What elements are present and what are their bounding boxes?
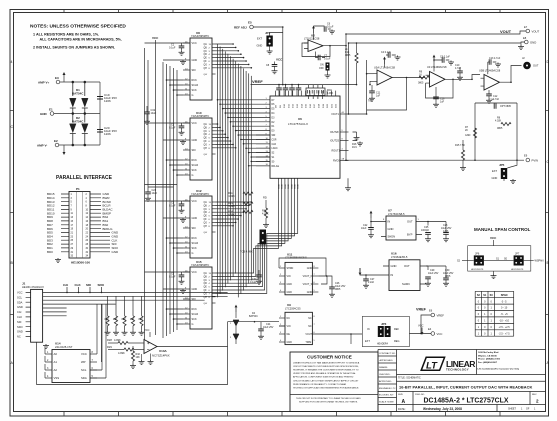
DAC pin ROUT1 xyxy=(340,150,349,152)
svg-text:A1: A1 xyxy=(54,360,58,364)
wires DAC left control xyxy=(256,135,270,166)
svg-text:CAI: CAI xyxy=(63,283,68,287)
wire +in U5A xyxy=(370,81,374,84)
svg-text:Fax: (408)434-0507: Fax: (408)434-0507 xyxy=(478,361,498,364)
svg-text:RCK: RCK xyxy=(192,79,198,82)
svg-text:R28: R28 xyxy=(107,338,112,342)
svg-text:MANUAL SPAN CONTROL: MANUAL SPAN CONTROL xyxy=(474,227,531,232)
svg-text:4.99K: 4.99K xyxy=(118,351,125,355)
svg-text:GND: GND xyxy=(112,250,120,254)
svg-text:QH: QH xyxy=(204,148,208,150)
capacitor C3 0.1uF xyxy=(169,201,190,223)
svg-text:GND: GND xyxy=(257,44,263,48)
svg-text:APPLICATION. COMPONENT SUBSTIT: APPLICATION. COMPONENT SUBSTITUTION AND … xyxy=(293,376,354,379)
svg-text:E2: E2 xyxy=(54,139,58,143)
svg-text:QA: QA xyxy=(204,272,208,275)
wire rail2 xyxy=(349,42,525,43)
svg-text:VSS: VSS xyxy=(54,376,60,380)
svg-text:10K: 10K xyxy=(104,317,109,321)
V- arrow xyxy=(63,145,65,152)
svg-text:CHECKED:: CHECKED: xyxy=(379,374,391,376)
svg-text:QE: QE xyxy=(204,138,208,140)
SHIFTREG xyxy=(144,31,298,340)
svg-text:QB: QB xyxy=(204,47,208,49)
svg-text:VIN: VIN xyxy=(287,325,291,328)
svg-text:SDI: SDI xyxy=(86,283,91,287)
svg-text:74VHC595MTC: 74VHC595MTC xyxy=(191,192,209,196)
svg-text:R29: R29 xyxy=(107,345,112,349)
svg-text:SCK: SCK xyxy=(192,247,197,250)
svg-text:1000pF: 1000pF xyxy=(421,229,430,232)
svg-text:QC: QC xyxy=(204,51,208,53)
svg-text:DC1485A-2 * LTC2757CLX: DC1485A-2 * LTC2757CLX xyxy=(424,397,509,404)
svg-text:E3: E3 xyxy=(55,76,59,80)
svg-text:G: G xyxy=(192,94,194,97)
svg-text:0 - 5: 0 - 5 xyxy=(502,300,507,303)
svg-text:IN: IN xyxy=(367,328,370,331)
svg-text:LTC2757ACLX: LTC2757ACLX xyxy=(288,122,308,126)
svg-text:4.02K: 4.02K xyxy=(495,120,502,123)
svg-text:RVOS: RVOS xyxy=(333,160,340,163)
pin 1 xyxy=(45,353,52,355)
IC U10 74VHC595MTC xyxy=(183,111,216,180)
svg-text:QH': QH' xyxy=(204,154,208,156)
svg-text:GND: GND xyxy=(530,41,536,45)
svg-text:10uF: 10uF xyxy=(361,227,367,230)
DAC pin RVOS xyxy=(340,160,349,162)
PARALLEL_IF xyxy=(47,175,119,265)
svg-text:GND: GND xyxy=(17,330,23,334)
wires bus to DAC left pins xyxy=(218,100,271,166)
svg-text:WSPAN: WSPAN xyxy=(535,260,544,263)
svg-text:A2: A2 xyxy=(54,368,58,372)
svg-text:QA: QA xyxy=(204,201,208,204)
svg-text:GND: GND xyxy=(295,184,297,189)
svg-text:DATE:: DATE: xyxy=(398,407,406,411)
wire control bus horizontals xyxy=(145,43,184,324)
svg-text:GND: GND xyxy=(287,283,293,286)
svg-text:GND: GND xyxy=(287,341,293,344)
svg-text:GND: GND xyxy=(192,59,198,62)
svg-text:E7: E7 xyxy=(524,25,528,29)
svg-text:VREF: VREF xyxy=(416,307,427,311)
svg-text:SCLR: SCLR xyxy=(192,164,199,167)
svg-text:IOUT2S: IOUT2S xyxy=(330,140,339,143)
svg-text:CLK: CLK xyxy=(75,283,82,287)
svg-text:VREF: VREF xyxy=(252,79,263,84)
svg-text:VCC: VCC xyxy=(192,200,197,203)
svg-text:HEADER4: HEADER4 xyxy=(377,343,389,346)
testpoint E2 AMP V- xyxy=(55,143,59,147)
wire U3 output/feedback xyxy=(426,75,481,99)
svg-text:SIZE: SIZE xyxy=(398,394,403,396)
svg-text:SCK: SCK xyxy=(192,89,197,92)
svg-text:1uF: 1uF xyxy=(376,95,381,98)
svg-text:GND: GND xyxy=(17,305,23,309)
svg-text:DRAWN:: DRAWN: xyxy=(379,366,388,369)
svg-text:74VHC595MTC: 74VHC595MTC xyxy=(191,114,209,118)
svg-text:A: A xyxy=(402,399,406,405)
svg-text:VCC: VCC xyxy=(276,58,283,62)
svg-text:QD: QD xyxy=(204,283,208,285)
wire VOUT rail xyxy=(346,31,526,34)
svg-text:SDI: SDI xyxy=(17,320,22,324)
svg-text:QH: QH xyxy=(204,297,208,299)
ground IOUT2S xyxy=(356,139,358,141)
DAC pin IOUT2F xyxy=(340,131,349,133)
capacitor C2 0.1uF xyxy=(169,123,190,145)
pin 4 xyxy=(45,377,52,379)
wire AMP V+ rail xyxy=(60,81,100,83)
resistor R28 4.99K xyxy=(108,342,118,344)
svg-text:RFLAG: RFLAG xyxy=(272,165,280,168)
svg-text:SHDN: SHDN xyxy=(388,235,396,239)
svg-text:10K: 10K xyxy=(113,317,118,321)
wire PVIN rail xyxy=(346,159,524,161)
ground J1 xyxy=(43,344,49,349)
svg-text:QD: QD xyxy=(204,134,208,136)
svg-text:SDO: SDO xyxy=(17,325,23,329)
svg-text:VCC: VCC xyxy=(81,352,87,356)
svg-text:GND: GND xyxy=(298,184,300,189)
svg-text:VREF: VREF xyxy=(437,314,445,318)
svg-text:C14: C14 xyxy=(489,98,494,101)
svg-text:CAI: CAI xyxy=(17,310,22,314)
wires data bus verticals xyxy=(218,44,252,297)
span jumper box xyxy=(468,246,531,271)
capacitor C32 10uF xyxy=(144,106,157,124)
svg-text:4.99K: 4.99K xyxy=(228,195,235,198)
svg-text:0.1uF: 0.1uF xyxy=(324,58,331,61)
svg-text:4.99K: 4.99K xyxy=(327,92,334,95)
wire control bus verticals xyxy=(163,62,177,338)
svg-text:VERIFY PROPER AND RELIABLE OPE: VERIFY PROPER AND RELIABLE OPERATION IN … xyxy=(293,372,356,375)
svg-text:ENGINEER: LTC: ENGINEER: LTC xyxy=(379,388,396,390)
DAC top pin labels xyxy=(276,103,338,108)
svg-text:Wednesday, July 23, 2008: Wednesday, July 23, 2008 xyxy=(423,407,462,411)
svg-text:4.99K: 4.99K xyxy=(228,214,235,217)
svg-text:VIN: VIN xyxy=(287,275,291,278)
svg-text:HE10D-47H40LCX: HE10D-47H40LCX xyxy=(22,285,44,289)
V- arrow xyxy=(359,268,362,275)
svg-text:4.7uF: 4.7uF xyxy=(455,67,462,70)
svg-text:0.1uF: 0.1uF xyxy=(250,281,257,284)
svg-text:VCC: VCC xyxy=(17,291,23,295)
svg-text:A0: A0 xyxy=(54,352,58,356)
svg-text:16-BIT PARALLEL, INPUT, CURREN: 16-BIT PARALLEL, INPUT, CURRENT OUTPUT D… xyxy=(399,385,533,390)
svg-text:QB: QB xyxy=(204,205,208,207)
svg-text:QH': QH' xyxy=(204,303,208,305)
svg-text:G: G xyxy=(192,174,194,177)
svg-text:TECHNOLOGY: TECHNOLOGY xyxy=(446,367,469,371)
svg-text:VOUT: VOUT xyxy=(532,30,540,34)
title block frame xyxy=(378,350,546,412)
svg-text:TITLE: SCHEMATIC: TITLE: SCHEMATIC xyxy=(398,377,421,380)
SPANCTL xyxy=(457,227,544,336)
svg-text:SPAN: SPAN xyxy=(501,294,508,297)
svg-text:-5 - +5: -5 - +5 xyxy=(501,313,509,316)
P1 pin numbers xyxy=(71,194,89,258)
wire AMP V- rail xyxy=(59,144,100,146)
svg-text:0.1uF: 0.1uF xyxy=(327,26,334,29)
svg-text:VCC: VCC xyxy=(490,236,497,240)
svg-text:GND: GND xyxy=(285,184,287,189)
capacitor C19 xyxy=(97,97,103,100)
resistor R30 10K xyxy=(107,296,109,316)
right zone ticks xyxy=(546,111,549,315)
svg-text:CUSTOMER NOTICE: CUSTOMER NOTICE xyxy=(307,354,352,359)
svg-text:IN: IN xyxy=(391,273,394,277)
svg-text:E9: E9 xyxy=(524,154,528,158)
svg-text:QH: QH xyxy=(204,226,208,228)
wires box rows to bus xyxy=(216,44,252,226)
svg-text:REF: REF xyxy=(394,328,399,331)
svg-text:BD0: BD0 xyxy=(47,250,53,254)
svg-text:VCC: VCC xyxy=(192,42,197,45)
wires U11 out xyxy=(318,276,332,287)
svg-text:GND: GND xyxy=(307,291,313,294)
svg-text:JP5: JP5 xyxy=(499,163,505,167)
turret OUT xyxy=(523,62,531,70)
ground xyxy=(55,258,61,263)
svg-text:NE: NE xyxy=(287,333,291,336)
wire VREF rail xyxy=(251,84,357,86)
svg-text:WR: WR xyxy=(272,135,276,137)
svg-text:QA: QA xyxy=(204,123,208,126)
VREFSEC xyxy=(234,21,357,100)
svg-text:VOUT: VOUT xyxy=(305,333,312,336)
DAC pin IOUT2S xyxy=(340,140,349,142)
top zone ticks xyxy=(64,10,500,13)
svg-text:-10 - +10: -10 - +10 xyxy=(499,320,509,323)
svg-text:CONTRACT NO.: CONTRACT NO. xyxy=(379,352,396,355)
customer notice box xyxy=(290,352,378,412)
svg-text:4.7uF: 4.7uF xyxy=(493,98,500,101)
svg-text:GND: GND xyxy=(192,217,198,220)
svg-text:QH: QH xyxy=(204,68,208,70)
IC U8 74VHC595MTC xyxy=(183,31,216,100)
svg-text:AMP V+: AMP V+ xyxy=(38,81,49,85)
capacitor C5 0.1uF xyxy=(169,272,190,294)
svg-text:1uF: 1uF xyxy=(440,101,445,104)
svg-text:AMP V-: AMP V- xyxy=(37,144,47,148)
grounds under U13A xyxy=(139,360,145,365)
wires P1 right fan xyxy=(90,194,110,252)
svg-text:SDA: SDA xyxy=(81,376,87,380)
pin 6 xyxy=(90,369,97,371)
svg-text:CLK: CLK xyxy=(17,315,22,319)
svg-text:QB: QB xyxy=(204,276,208,278)
svg-text:1 ALL RESISTORS ARE IN OHMS,: 1 ALL RESISTORS ARE IN OHMS, 1%. xyxy=(33,33,99,37)
svg-text:2: 2 xyxy=(536,398,539,403)
diode D2 BAT54C xyxy=(70,113,88,146)
PROTECTION xyxy=(37,72,117,155)
svg-text:SUPPLIED FOR USE WITH LINEAR T: SUPPLIED FOR USE WITH LINEAR TECHNOLOGY … xyxy=(299,401,358,404)
svg-text:CLR: CLR xyxy=(272,144,277,146)
svg-text:QE: QE xyxy=(204,58,208,60)
svg-text:DWG NO.: DWG NO. xyxy=(415,394,425,396)
LT logo xyxy=(421,357,444,371)
DAC top pin stubs xyxy=(276,91,336,96)
svg-text:QD: QD xyxy=(204,54,208,56)
svg-text:10uF: 10uF xyxy=(152,192,158,195)
svg-text:VCC: VCC xyxy=(192,122,197,125)
svg-text:G: G xyxy=(192,252,194,255)
svg-text:GND: GND xyxy=(388,227,394,231)
svg-text:OFF: OFF xyxy=(319,67,324,70)
svg-text:U5B LT1469ACS8: U5B LT1469ACS8 xyxy=(479,69,501,73)
svg-text:GND: GND xyxy=(291,184,293,189)
svg-text:10K: 10K xyxy=(136,356,141,359)
svg-text:VOUT_S: VOUT_S xyxy=(303,283,313,286)
svg-text:-2.5 - +2.5: -2.5 - +2.5 xyxy=(499,326,511,329)
testpoint E1 GND xyxy=(50,112,54,116)
svg-text:4.99K: 4.99K xyxy=(114,338,121,342)
svg-text:THIS CIRCUIT IS PROPRIETARY TO: THIS CIRCUIT IS PROPRIETARY TO LINEAR TE… xyxy=(296,397,361,400)
svg-text:TECHNOLOGY APPLICATIONS ENGINE: TECHNOLOGY APPLICATIONS ENGINEERING FOR … xyxy=(293,386,359,389)
jumper JP3 xyxy=(362,316,409,346)
svg-text:HE10D50-100: HE10D50-100 xyxy=(71,261,90,265)
REGS xyxy=(228,209,454,347)
svg-text:-2.5 - +7.5: -2.5 - +7.5 xyxy=(499,332,511,335)
svg-text:C9 0.1uF: C9 0.1uF xyxy=(440,56,450,59)
DAC xyxy=(228,91,351,228)
wire right vertical xyxy=(99,82,101,145)
svg-text:E6: E6 xyxy=(429,309,433,313)
svg-text:Milpitas, CA 95035: Milpitas, CA 95035 xyxy=(478,354,498,357)
span table xyxy=(475,291,514,336)
svg-text:APPROVED:: APPROVED: xyxy=(379,380,392,383)
svg-text:QG: QG xyxy=(204,293,208,295)
svg-text:HD2X2X079: HD2X2X079 xyxy=(471,269,484,271)
svg-text:LTC2054CS5: LTC2054CS5 xyxy=(285,306,301,310)
svg-text:QD: QD xyxy=(204,212,208,214)
svg-text:NC7SZ14P6X: NC7SZ14P6X xyxy=(152,354,170,358)
wire bottom return xyxy=(37,342,228,384)
svg-text:G: G xyxy=(192,323,194,326)
V+ arrow xyxy=(370,211,373,218)
svg-text:J1: J1 xyxy=(22,282,26,286)
svg-text:2 INSTALL SHUNTS ON JUMPERS: 2 INSTALL SHUNTS ON JUMPERS AS SHOWN. xyxy=(33,46,115,50)
svg-text:LTC Confidential-For Customer: LTC Confidential-For Customer Use Only xyxy=(478,368,520,371)
svg-text:LTC6655BHMS8-5: LTC6655BHMS8-5 xyxy=(285,256,307,260)
svg-text:REF ADJ: REF ADJ xyxy=(234,26,247,30)
svg-text:NC: NC xyxy=(308,325,312,328)
resistor R33 10K xyxy=(132,296,134,316)
svg-text:EXT: EXT xyxy=(365,340,370,343)
svg-text:NOTES: UNLESS OTHERWISE SPECI: NOTES: UNLESS OTHERWISE SPECIFIED xyxy=(30,24,126,30)
svg-text:GND: GND xyxy=(192,288,198,291)
svg-text:TBB: TBB xyxy=(368,100,373,103)
svg-text:TRIM: TRIM xyxy=(305,341,311,344)
svg-text:SDA: SDA xyxy=(17,300,23,304)
svg-text:GND: GND xyxy=(307,267,313,270)
svg-text:VOUT: VOUT xyxy=(500,29,512,34)
svg-text:0805: 0805 xyxy=(345,54,351,57)
svg-text:EXT: EXT xyxy=(492,169,497,173)
IC U12 74VHC595MTC xyxy=(183,189,216,258)
DAC pin IOUT1 xyxy=(340,113,349,115)
wire GND rail xyxy=(54,113,100,115)
svg-text:GND: GND xyxy=(288,184,290,189)
wire U5B output xyxy=(500,66,522,83)
svg-text:OPT 0805: OPT 0805 xyxy=(500,105,512,108)
svg-text:IOUT2F: IOUT2F xyxy=(330,131,339,134)
svg-text:QC: QC xyxy=(204,280,208,282)
svg-text:VCC: VCC xyxy=(144,328,150,332)
V+ arrow xyxy=(63,75,65,82)
svg-text:R15 7.5K: R15 7.5K xyxy=(455,144,465,147)
svg-text:E5: E5 xyxy=(248,21,252,25)
svg-text:PARALLEL INTERFACE: PARALLEL INTERFACE xyxy=(56,175,113,181)
wires P1 left fan xyxy=(61,194,69,252)
resistor R34 10K xyxy=(141,296,143,316)
wire feedback U5A xyxy=(367,60,425,114)
svg-text:LINEAR TECHNOLOGY HAS MADE A B: LINEAR TECHNOLOGY HAS MADE A BEST EFFORT… xyxy=(293,362,360,365)
svg-text:JP6: JP6 xyxy=(475,253,480,256)
svg-text:CSR: CSR xyxy=(272,139,277,141)
svg-text:24LC025-I/ST: 24LC025-I/ST xyxy=(55,345,73,349)
svg-text:BAT54C: BAT54C xyxy=(72,120,84,124)
pin 7 xyxy=(90,361,97,363)
NOTES xyxy=(30,24,126,50)
svg-text:4: 4 xyxy=(11,60,13,64)
svg-text:SHDN: SHDN xyxy=(287,267,294,270)
svg-text:QE: QE xyxy=(204,216,208,218)
svg-text:IN: IN xyxy=(388,220,391,224)
svg-text:10uF 25V: 10uF 25V xyxy=(428,272,439,275)
ground right of DAC xyxy=(347,178,349,186)
svg-text:10K: 10K xyxy=(138,317,143,321)
svg-text:LT1763CS8-5: LT1763CS8-5 xyxy=(388,212,405,216)
resistor R31 10K xyxy=(115,296,117,316)
pin 3 xyxy=(45,369,52,371)
svg-text:U6: U6 xyxy=(298,117,302,121)
svg-text:QC: QC xyxy=(204,131,208,133)
DAC bottom pin labels xyxy=(279,184,300,189)
wire U11 loop xyxy=(279,258,326,276)
svg-text:LT: LT xyxy=(426,360,438,371)
resistor network RN1 xyxy=(306,88,325,96)
svg-text:0 - 10: 0 - 10 xyxy=(501,307,508,310)
svg-text:QH': QH' xyxy=(204,232,208,234)
svg-text:QG: QG xyxy=(204,64,208,66)
pin 2 xyxy=(45,361,52,363)
svg-text:TCB 4.99K: TCB 4.99K xyxy=(240,250,253,254)
svg-text:QC: QC xyxy=(204,209,208,211)
svg-text:APPROVALS: APPROVALS xyxy=(380,359,394,362)
svg-text:HOWEVER, IT REMAINS THE CUSTOM: HOWEVER, IT REMAINS THE CUSTOMER'S RESPO… xyxy=(293,369,359,372)
svg-text:10K: 10K xyxy=(130,317,135,321)
svg-text:NC: NC xyxy=(308,317,312,320)
capacitor C20 xyxy=(97,130,103,133)
svg-text:GND: GND xyxy=(492,176,498,180)
OUTCHAIN xyxy=(345,25,540,184)
svg-text:49.9: 49.9 xyxy=(352,146,357,149)
wire left verticals xyxy=(346,34,349,160)
svg-text:QA: QA xyxy=(204,43,208,46)
svg-text:OUT: OUT xyxy=(407,220,413,224)
bus junctions xyxy=(166,79,178,325)
svg-text:0805: 0805 xyxy=(418,82,424,85)
svg-text:SDO: SDO xyxy=(98,283,105,287)
wire U13A output xyxy=(157,322,228,347)
svg-text:GND: GND xyxy=(282,184,284,189)
svg-text:SCK: SCK xyxy=(192,169,197,172)
BOTTOMLEFT xyxy=(17,282,228,385)
svg-text:LDAC: LDAC xyxy=(272,147,278,150)
svg-text:10uF 25V: 10uF 25V xyxy=(263,326,274,329)
